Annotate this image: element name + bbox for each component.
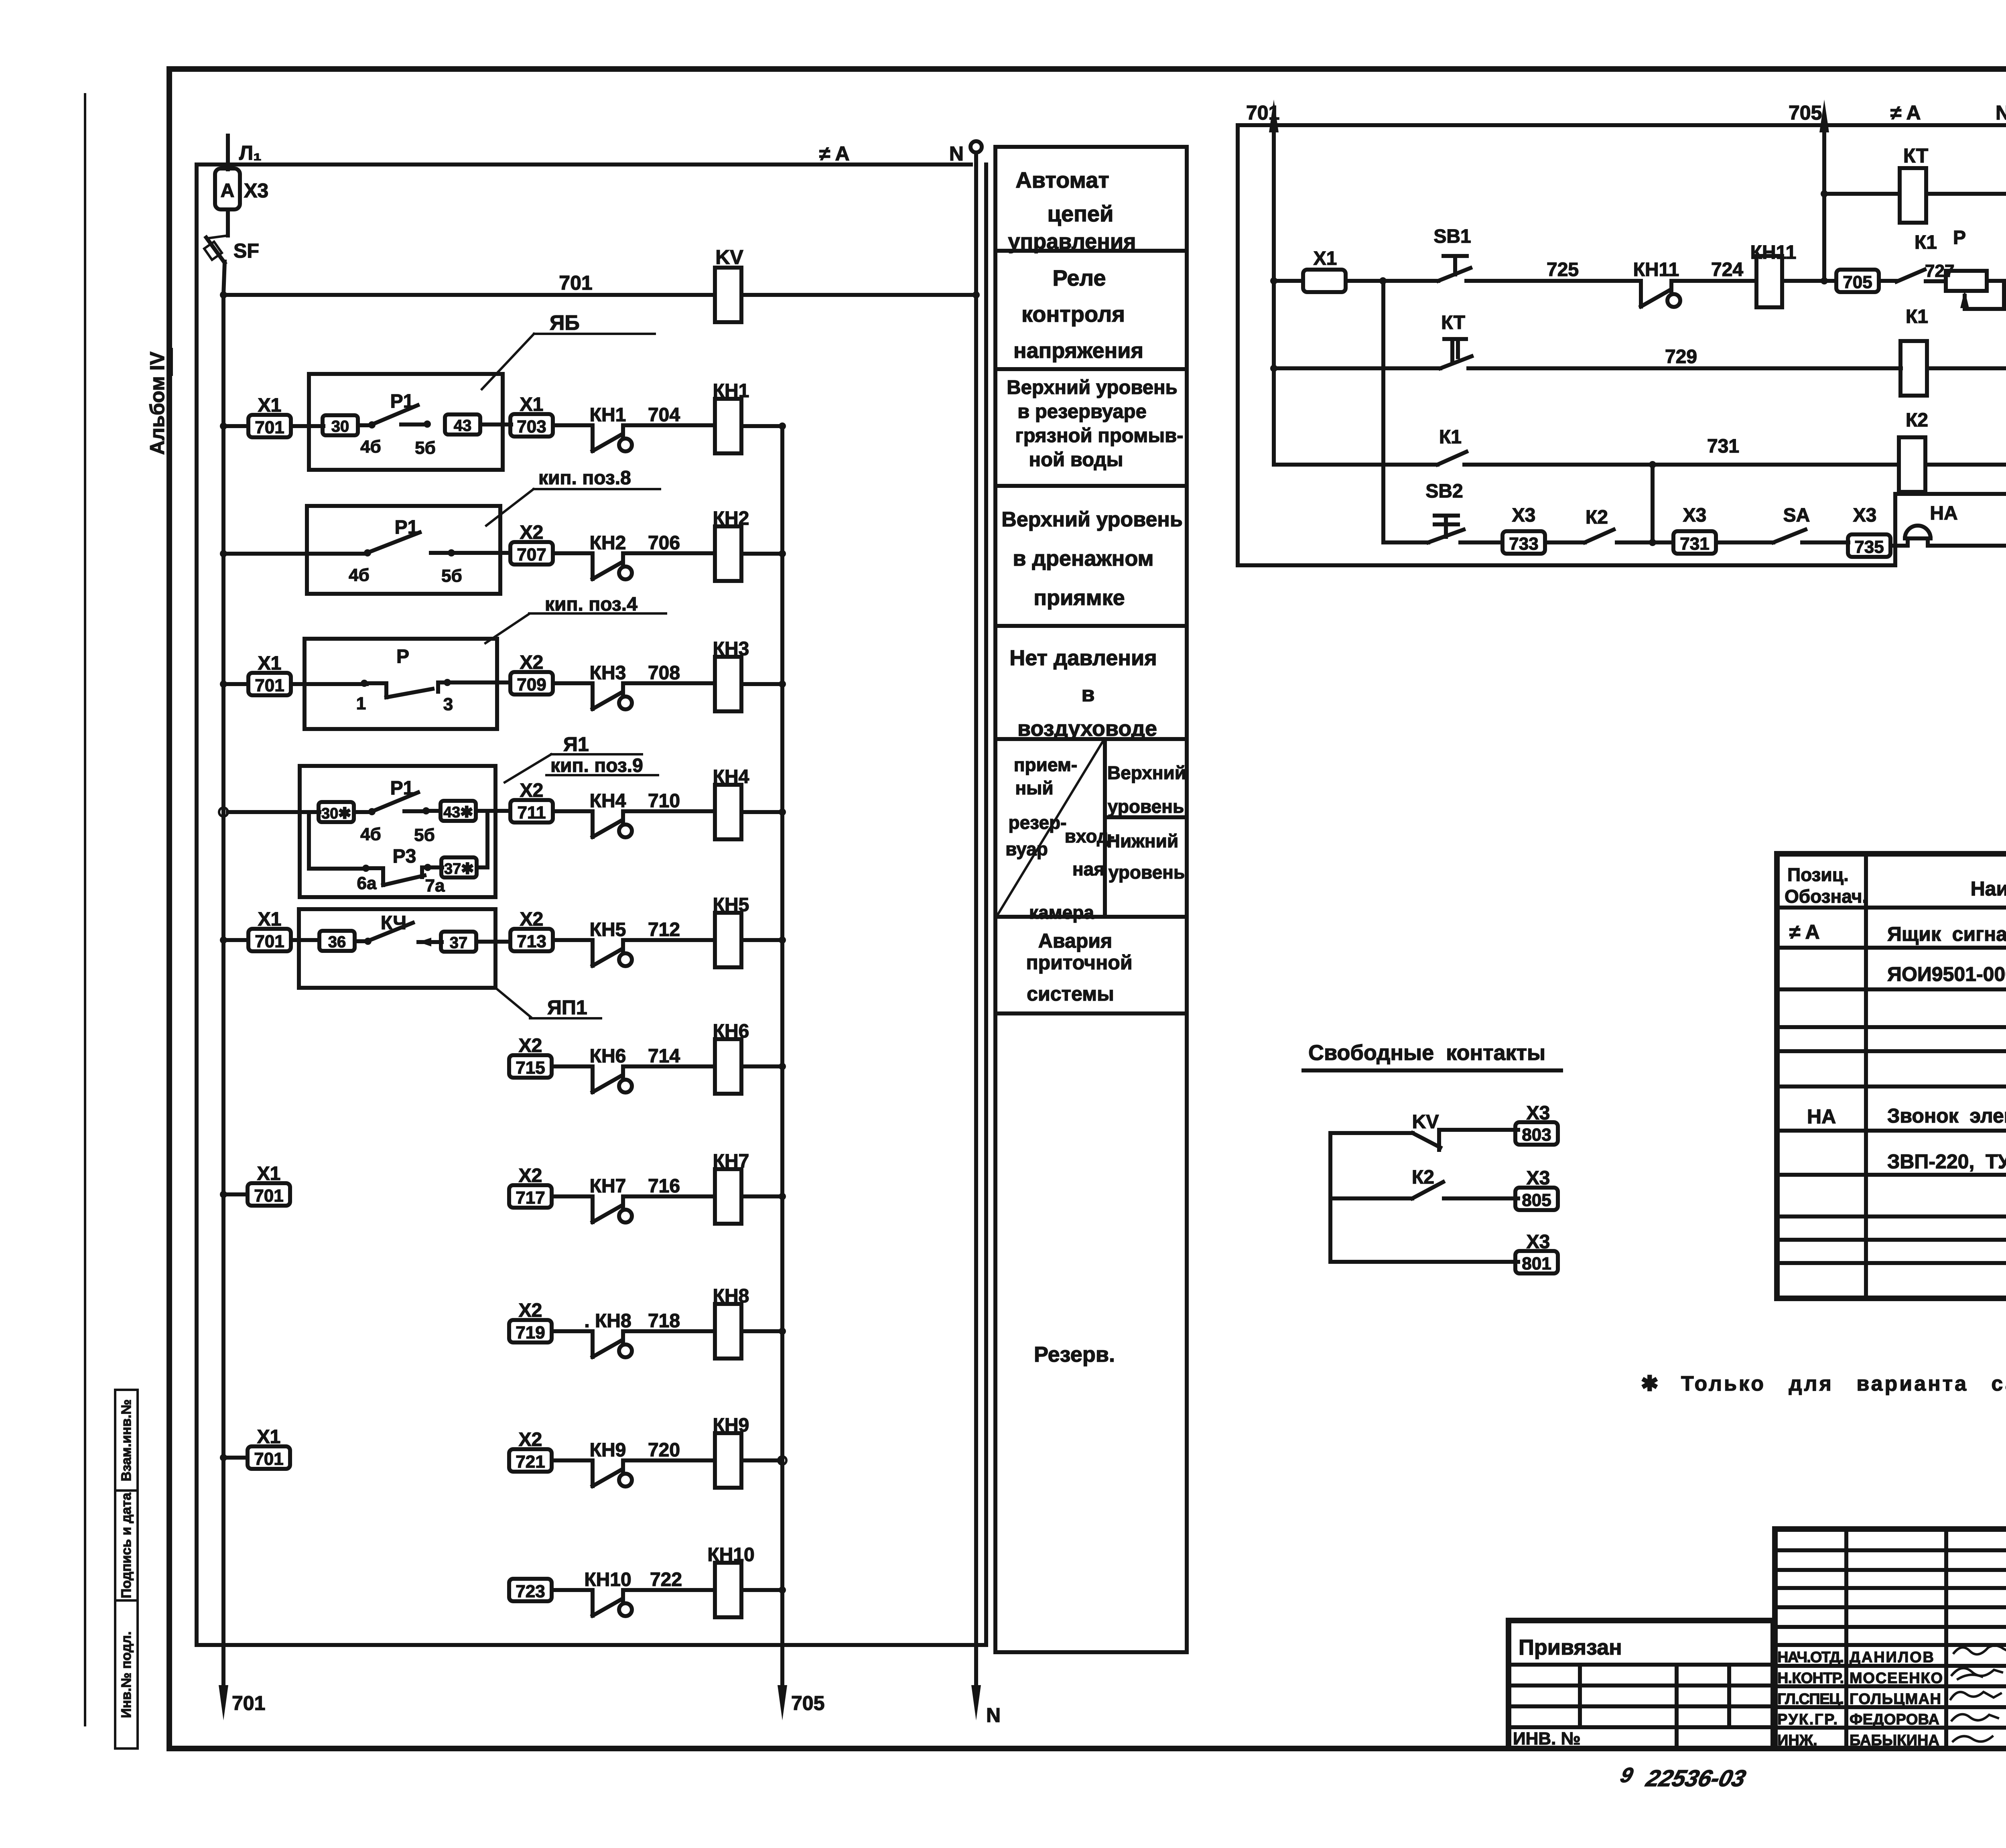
cell text: net davlenija v vozduhovode	[1009, 646, 1157, 741]
svg-text:КН11: КН11	[1633, 259, 1679, 280]
svg-text:731: 731	[1707, 436, 1739, 457]
svg-text:Верхний уровень: Верхний уровень	[1001, 508, 1183, 531]
svg-text:кип. поз.9: кип. поз.9	[550, 755, 643, 776]
svg-text:705: 705	[1789, 102, 1822, 124]
contact KH5	[590, 919, 715, 966]
svg-text:701: 701	[255, 932, 284, 951]
svg-text:ная: ная	[1072, 859, 1105, 879]
svg-text:уровень: уровень	[1109, 862, 1185, 883]
contact KH6	[590, 1046, 632, 1093]
svg-text:ЗВП-220, ТУ16.739-059-76: ЗВП-220, ТУ16.739-059-76	[1887, 1150, 2006, 1173]
terminal X1 703	[510, 394, 593, 437]
wire X3 801	[1330, 1231, 1558, 1273]
relay coil K2	[1899, 410, 2006, 492]
relay coil KH5	[713, 894, 786, 967]
svg-text:Автомат: Автомат	[1015, 167, 1109, 193]
title block	[1775, 1529, 2006, 1748]
sensor box YAB	[309, 311, 655, 470]
box A (signal box left)	[197, 164, 986, 1645]
svg-text:ный: ный	[1015, 778, 1053, 798]
svg-text:МОСЕЕНКО: МОСЕЕНКО	[1850, 1670, 1943, 1687]
svg-text:КН5: КН5	[590, 919, 626, 940]
svg-text:Я1: Я1	[563, 733, 589, 755]
svg-text:P1: P1	[390, 391, 414, 412]
indicator relay P	[1946, 227, 2006, 309]
svg-text:22536-03: 22536-03	[1643, 1766, 1748, 1791]
row KH4	[219, 808, 319, 816]
svg-text:КН2: КН2	[590, 532, 626, 554]
svg-text:37✱: 37✱	[444, 861, 474, 877]
svg-text:714: 714	[648, 1046, 680, 1067]
svg-text:X3: X3	[1683, 505, 1707, 526]
svg-text:4б: 4б	[360, 824, 381, 844]
contact KH4	[590, 790, 715, 837]
svg-text:X3: X3	[244, 179, 268, 202]
svg-text:729: 729	[1665, 346, 1697, 368]
svg-text:вуар: вуар	[1005, 839, 1048, 859]
svg-text:ЯП1: ЯП1	[547, 996, 587, 1019]
svg-text:5б: 5б	[414, 825, 435, 845]
function table left	[995, 147, 1187, 1652]
contact P1 row1	[323, 391, 511, 458]
privjazan block	[1509, 1621, 1773, 1748]
terminal X2 723	[509, 1579, 593, 1601]
svg-text:приямке: приямке	[1033, 586, 1125, 610]
svg-text:ной воды: ной воды	[1029, 449, 1123, 471]
svg-text:К1: К1	[1906, 306, 1928, 327]
svg-text:грязной промыв-: грязной промыв-	[1015, 425, 1183, 447]
svg-text:воздуховоде: воздуховоде	[1017, 717, 1157, 741]
svg-text:Верхний: Верхний	[1107, 762, 1186, 783]
svg-text:КН10: КН10	[584, 1569, 631, 1590]
svg-text:НА: НА	[1807, 1105, 1836, 1128]
svg-text:N: N	[986, 1704, 1001, 1726]
wire 701 entry right	[1246, 100, 1279, 465]
row KH3	[220, 653, 367, 695]
svg-text:К2: К2	[1906, 410, 1928, 431]
svg-text:P1: P1	[395, 517, 418, 538]
svg-text:Позиц.: Позиц.	[1787, 864, 1849, 885]
contact KH10	[584, 1569, 632, 1616]
svg-text:Подпись и дата: Подпись и дата	[119, 1492, 134, 1598]
svg-text:701: 701	[254, 1186, 283, 1206]
wire 716	[623, 1176, 715, 1197]
cell text: verhnij uroven v drenazhnom	[1001, 508, 1183, 610]
svg-text:НАЧ.ОТД.: НАЧ.ОТД.	[1777, 1649, 1844, 1666]
svg-text:4б: 4б	[349, 565, 370, 585]
svg-text:P: P	[396, 646, 409, 667]
svg-text:КЧ: КЧ	[381, 912, 406, 934]
wire 718	[623, 1310, 715, 1332]
svg-text:722: 722	[650, 1569, 682, 1590]
svg-text:X1: X1	[1314, 248, 1337, 269]
wire 729	[1665, 346, 1697, 368]
svg-text:716: 716	[648, 1176, 680, 1197]
svg-text:712: 712	[648, 919, 680, 940]
switch SA	[1773, 505, 1848, 542]
svg-text:К2: К2	[1586, 507, 1608, 528]
svg-text:ИНЖ.: ИНЖ.	[1777, 1732, 1817, 1749]
svg-text:735: 735	[1854, 537, 1884, 557]
svg-text:НА: НА	[1930, 503, 1957, 524]
row KH5	[220, 909, 319, 951]
svg-text:X3: X3	[1853, 505, 1877, 526]
svg-text:ФЕДОРОВА: ФЕДОРОВА	[1850, 1711, 1939, 1728]
svg-text:705: 705	[1843, 272, 1872, 292]
cell text: avtomat cepej upravlenija	[1008, 167, 1136, 254]
svg-text:Н.КОНТР.: Н.КОНТР.	[1777, 1670, 1844, 1687]
svg-text:30: 30	[331, 418, 349, 435]
album label	[146, 349, 172, 455]
svg-text:ГЛ.СПЕЦ.: ГЛ.СПЕЦ.	[1777, 1691, 1844, 1708]
svg-text:приточной: приточной	[1026, 951, 1132, 974]
terminal X2 713	[510, 909, 593, 951]
fuse A X3	[215, 169, 268, 236]
svg-text:30✱: 30✱	[321, 805, 351, 822]
svg-text:К1: К1	[1439, 426, 1462, 448]
svg-text:731: 731	[1680, 534, 1709, 554]
wire 722	[623, 1569, 715, 1590]
svg-text:717: 717	[516, 1188, 545, 1208]
relay coil KH8	[713, 1285, 786, 1359]
svg-text:713: 713	[517, 932, 546, 951]
relay coil KT row	[1821, 144, 2006, 223]
svg-text:723: 723	[516, 1582, 545, 1601]
svg-text:704: 704	[648, 404, 680, 426]
svg-text:801: 801	[1522, 1254, 1551, 1273]
terminal 705	[1836, 270, 1896, 292]
box A right circuit	[1238, 125, 2006, 565]
svg-text:кип. поз.8: кип. поз.8	[538, 467, 631, 489]
svg-text:37: 37	[450, 934, 468, 952]
terminal X2 717	[509, 1165, 593, 1208]
svg-text:X3: X3	[1512, 505, 1536, 526]
svg-text:805: 805	[1522, 1190, 1551, 1210]
page edge line	[84, 94, 86, 1725]
svg-text:≠ A: ≠ A	[1789, 921, 1820, 943]
wire N bus left	[971, 152, 1001, 1726]
svg-text:Альбом IV: Альбом IV	[146, 351, 169, 455]
relay coil KH9	[713, 1415, 786, 1488]
wire 725	[1533, 259, 1641, 281]
svg-text:SB2: SB2	[1425, 481, 1463, 502]
sensor box YaP1	[299, 909, 601, 1019]
terminal X2 721	[509, 1429, 593, 1472]
svg-text:718: 718	[648, 1310, 680, 1332]
wire 705 bus	[778, 426, 824, 1720]
stamp column rotated	[115, 1390, 138, 1748]
terminal X3 805	[1515, 1168, 1558, 1210]
svg-text:Звонок электрический: Звонок электрический	[1887, 1105, 2006, 1127]
svg-text:в: в	[1081, 682, 1094, 706]
svg-text:43: 43	[454, 417, 472, 435]
svg-text:кип. поз.4: кип. поз.4	[545, 594, 638, 615]
svg-text:708: 708	[648, 662, 680, 684]
sensor box kip8	[307, 467, 660, 594]
wire 705 entry right	[1789, 100, 1829, 282]
svg-text:3: 3	[443, 695, 453, 714]
parts row ZVP	[1887, 1149, 2006, 1173]
bell HA	[1905, 503, 2006, 546]
node A label left	[819, 142, 850, 165]
terminal X2 715	[509, 1035, 593, 1078]
svg-text:в дренажном: в дренажном	[1013, 546, 1153, 571]
svg-text:в резервуаре: в резервуаре	[1017, 401, 1147, 422]
svg-text:701: 701	[254, 1449, 283, 1469]
relay coil KH6	[713, 1021, 786, 1094]
svg-text:≠ A: ≠ A	[819, 142, 850, 165]
svg-text:КТ: КТ	[1441, 312, 1465, 333]
svg-text:БАБЫКИНА: БАБЫКИНА	[1850, 1732, 1939, 1749]
contact KV free	[1330, 1111, 1518, 1262]
svg-text:КН1: КН1	[590, 404, 626, 426]
svg-text:725: 725	[1547, 259, 1579, 280]
svg-text:4б: 4б	[360, 437, 381, 457]
terminal X2 711	[510, 780, 593, 822]
svg-text:36: 36	[328, 933, 346, 951]
contact KH11	[1633, 259, 1701, 307]
svg-text:ДАНИЛОВ: ДАНИЛОВ	[1850, 1649, 1934, 1666]
terminal X2 709	[510, 652, 593, 695]
contact P1 row2	[349, 517, 510, 586]
contact KH1	[590, 404, 715, 451]
parts row A	[1789, 921, 2006, 945]
contact K2 NO	[1585, 507, 1673, 546]
relay coil KH3	[713, 638, 786, 711]
svg-text:KV: KV	[715, 246, 743, 268]
terminal X3 803	[1515, 1103, 1558, 1145]
parts table headers	[1785, 864, 2006, 907]
footer notes	[1618, 1764, 2006, 1791]
svg-text:≠ A: ≠ A	[1890, 102, 1921, 124]
parts table	[1777, 854, 2006, 1298]
sensor box Ya1 kip9	[300, 733, 658, 897]
svg-text:KV: KV	[1412, 1111, 1439, 1133]
terminal X3 735	[1848, 505, 1908, 557]
contact K1 row 731	[1274, 426, 1899, 465]
svg-text:5б: 5б	[441, 566, 462, 586]
contact KH7	[590, 1176, 632, 1223]
wire X1 row 702	[1270, 248, 1438, 292]
svg-text:701: 701	[255, 676, 284, 695]
node A label right	[1890, 102, 1921, 124]
button SB1	[1433, 226, 1533, 281]
svg-text:Авария: Авария	[1038, 930, 1112, 952]
svg-text:К2: К2	[1412, 1167, 1434, 1188]
svg-text:Ящик сигнализации: Ящик сигнализации	[1887, 923, 2006, 945]
svg-text:P1: P1	[390, 778, 414, 799]
contact P1 row4	[319, 778, 510, 845]
relay coil KH4	[713, 766, 786, 839]
parts row HA	[1807, 1105, 2006, 1128]
wire 714	[623, 1046, 715, 1067]
relay coil KH7	[713, 1151, 786, 1224]
svg-text:Свободные контакты: Свободные контакты	[1308, 1041, 1545, 1065]
relay coil K1	[1900, 306, 2006, 396]
button SB2	[1383, 281, 1502, 542]
sensor box kip4	[305, 594, 666, 729]
svg-text:напряжения: напряжения	[1013, 339, 1143, 363]
svg-text:КН6: КН6	[590, 1046, 626, 1067]
svg-text:721: 721	[516, 1452, 545, 1472]
svg-text:5б: 5б	[415, 438, 436, 458]
relay coil KH11	[1750, 242, 1836, 307]
svg-text:Только для варианта самотечной: Только для варианта самотечной подачи ст…	[1681, 1372, 2006, 1395]
terminal X3 733	[1502, 505, 1585, 554]
svg-text:1: 1	[356, 694, 366, 713]
relay coil KV	[715, 246, 980, 322]
svg-text:43✱: 43✱	[443, 804, 473, 821]
svg-text:7а: 7а	[425, 876, 445, 896]
contact KH9	[590, 1440, 632, 1487]
svg-text:Обознач.: Обознач.	[1785, 886, 1867, 907]
svg-text:719: 719	[516, 1323, 545, 1342]
row KH1	[220, 395, 323, 437]
svg-text:. КН8: . КН8	[584, 1310, 631, 1332]
contact KT timed	[1270, 312, 1901, 372]
svg-text:733: 733	[1509, 534, 1538, 554]
svg-text:707: 707	[517, 545, 546, 565]
contact P row3	[356, 646, 510, 714]
svg-text:Нижний: Нижний	[1107, 831, 1178, 851]
contact KH3	[590, 662, 715, 709]
svg-text:Наименование: Наименование	[1971, 877, 2006, 900]
wire 731	[1649, 436, 1739, 542]
cell text: avarija pritochnoj sistemy	[1026, 930, 1132, 1005]
svg-text:цепей: цепей	[1048, 201, 1114, 226]
svg-text:720: 720	[648, 1440, 680, 1461]
contact K1 NO	[1896, 232, 1954, 282]
wire left bus 701	[219, 295, 265, 1720]
svg-text:N: N	[1996, 102, 2006, 124]
contact KH2	[590, 532, 715, 579]
svg-text:Р: Р	[1953, 227, 1966, 248]
row KH2	[220, 550, 367, 557]
relay coil KH1	[713, 380, 786, 453]
spare terminal X1 701 a	[220, 1163, 290, 1206]
svg-text:705: 705	[791, 1692, 824, 1714]
wire N entry right	[1996, 100, 2006, 546]
svg-text:SF: SF	[233, 240, 259, 262]
svg-text:КН4: КН4	[590, 790, 626, 812]
svg-text:✱: ✱	[1641, 1372, 1659, 1395]
svg-text:Резерв.: Резерв.	[1034, 1342, 1115, 1367]
svg-text:контроля: контроля	[1021, 301, 1125, 327]
svg-text:А: А	[221, 180, 235, 201]
terminal X2 707	[510, 522, 593, 565]
svg-text:КН3: КН3	[590, 662, 626, 684]
svg-text:КТ: КТ	[1903, 144, 1928, 167]
cell text: priemnyj rezervuar vhodnaja kamera	[1005, 754, 1186, 923]
svg-text:709: 709	[517, 675, 546, 695]
node L1 stub	[228, 136, 262, 169]
svg-text:ЯОИ9501-0004БУХЛ4: ЯОИ9501-0004БУХЛ4	[1887, 963, 2006, 985]
svg-text:715: 715	[516, 1058, 545, 1078]
cell text: rele kontrolja naprjazhenija	[1013, 265, 1143, 363]
note	[1641, 1372, 2006, 1395]
svg-text:ИНВ. №: ИНВ. №	[1513, 1729, 1581, 1748]
svg-text:701: 701	[559, 272, 592, 294]
svg-text:SA: SA	[1783, 505, 1810, 526]
terminal X3 731	[1673, 505, 1773, 554]
svg-text:703: 703	[517, 417, 546, 437]
node N terminal top	[949, 141, 982, 165]
free contacts title	[1303, 1041, 1561, 1070]
signatures text	[1777, 1649, 1943, 1749]
svg-text:РУК.ГР.: РУК.ГР.	[1777, 1711, 1837, 1728]
wire 701 bus top	[220, 272, 715, 299]
svg-text:Л₁: Л₁	[239, 142, 262, 164]
contact KH8	[584, 1310, 632, 1357]
svg-text:Нет давления: Нет давления	[1009, 646, 1157, 670]
contact P3 branch	[309, 811, 487, 896]
svg-text:Инв.№ подл.: Инв.№ подл.	[119, 1631, 134, 1718]
parts row YAOI	[1887, 961, 2006, 985]
cell text: rezerv	[1034, 1342, 1115, 1367]
svg-text:N: N	[949, 142, 964, 165]
spare terminal X1 701 b	[220, 1426, 290, 1469]
wire 724	[1701, 259, 1756, 281]
svg-text:Привязан: Привязан	[1519, 1635, 1622, 1659]
svg-text:уровень: уровень	[1108, 796, 1184, 817]
svg-text:Взам.инв.№: Взам.инв.№	[119, 1399, 134, 1481]
svg-text:резер-: резер-	[1009, 812, 1067, 833]
svg-text:706: 706	[648, 532, 680, 554]
switch SF	[204, 236, 259, 295]
svg-text:701: 701	[232, 1692, 265, 1714]
svg-text:КН9: КН9	[590, 1440, 626, 1461]
svg-text:710: 710	[648, 790, 680, 812]
terminal X2 719	[509, 1300, 593, 1342]
svg-text:711: 711	[518, 803, 546, 822]
contact K2 free	[1330, 1167, 1518, 1198]
svg-text:P3: P3	[393, 846, 416, 867]
svg-text:803: 803	[1522, 1125, 1551, 1145]
relay coil KH2	[713, 508, 786, 581]
svg-text:701: 701	[255, 418, 284, 437]
svg-text:Верхний уровень: Верхний уровень	[1007, 377, 1178, 398]
svg-text:КН7: КН7	[590, 1176, 626, 1197]
svg-text:К1: К1	[1915, 232, 1937, 253]
wire 720	[623, 1440, 715, 1461]
svg-text:6а: 6а	[357, 873, 377, 893]
svg-text:камера: камера	[1029, 902, 1094, 923]
cell text: verhnij uroven v rezervuare	[1007, 377, 1183, 471]
svg-text:724: 724	[1711, 259, 1743, 280]
svg-text:системы: системы	[1027, 983, 1114, 1005]
svg-text:SB1: SB1	[1433, 226, 1471, 247]
relay coil KH10	[707, 1544, 786, 1617]
svg-text:ГОЛЬЦМАН: ГОЛЬЦМАН	[1850, 1691, 1941, 1708]
signature squiggles	[1951, 1645, 2006, 1741]
contact KCh row5	[319, 912, 510, 952]
svg-text:Реле: Реле	[1052, 265, 1106, 290]
svg-text:управления: управления	[1008, 229, 1136, 254]
svg-text:прием-: прием-	[1014, 754, 1077, 775]
svg-text:ЯБ: ЯБ	[550, 311, 580, 335]
